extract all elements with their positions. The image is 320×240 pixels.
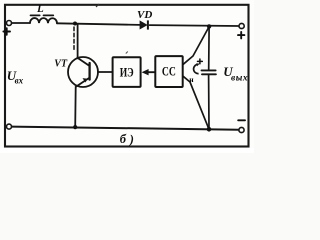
svg-text:н: н (189, 75, 194, 84)
svg-text:VD: VD (137, 9, 152, 21)
svg-text:L: L (36, 3, 44, 15)
svg-text:вх: вх (15, 75, 24, 85)
svg-text:вых: вых (231, 73, 248, 83)
svg-text:б: б (120, 132, 127, 146)
svg-text:VT: VT (54, 59, 68, 70)
svg-text:ИЭ: ИЭ (120, 66, 134, 80)
svg-text:СС: СС (162, 65, 176, 79)
svg-text:): ) (129, 133, 134, 147)
